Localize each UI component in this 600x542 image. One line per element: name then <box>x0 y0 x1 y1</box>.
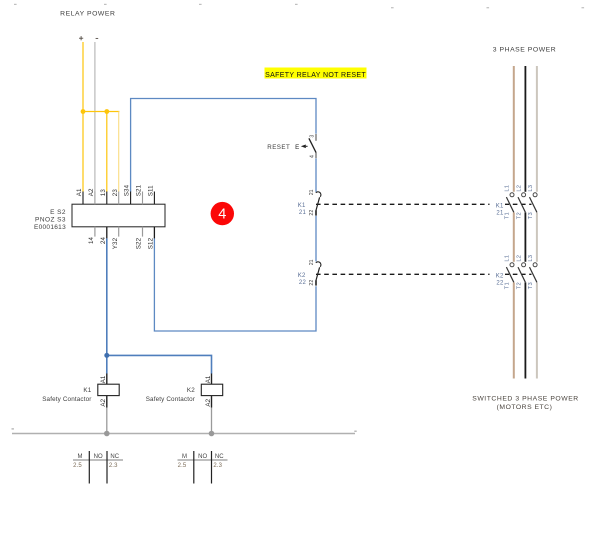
svg-text:24: 24 <box>100 236 107 244</box>
svg-text:SAFETY RELAY NOT RESET: SAFETY RELAY NOT RESET <box>265 72 366 79</box>
svg-text:A1: A1 <box>205 375 212 383</box>
svg-text:PNOZ S3: PNOZ S3 <box>35 217 66 224</box>
svg-text:L3: L3 <box>528 255 534 262</box>
svg-text:21: 21 <box>496 211 504 217</box>
svg-text:A2: A2 <box>100 398 107 406</box>
svg-text:S22: S22 <box>136 237 143 249</box>
svg-text:(MOTORS ETC): (MOTORS ETC) <box>497 404 553 411</box>
svg-text:L2: L2 <box>516 255 522 262</box>
svg-text:22: 22 <box>299 280 307 286</box>
svg-text:E S2: E S2 <box>50 209 66 216</box>
svg-text:T3: T3 <box>528 282 534 289</box>
svg-text:4: 4 <box>309 155 315 158</box>
svg-text:S12: S12 <box>148 237 155 249</box>
svg-text:NO: NO <box>94 454 103 460</box>
svg-text:2.5: 2.5 <box>73 463 82 469</box>
svg-text:M: M <box>182 454 187 460</box>
svg-text:T1: T1 <box>505 212 511 219</box>
svg-text:3: 3 <box>309 135 315 138</box>
svg-text:A1: A1 <box>100 375 107 383</box>
svg-text:SWITCHED 3 PHASE POWER: SWITCHED 3 PHASE POWER <box>472 396 579 403</box>
svg-text:4: 4 <box>218 207 226 223</box>
svg-text:K2: K2 <box>187 387 195 394</box>
svg-text:Safety Contactor: Safety Contactor <box>42 396 91 403</box>
svg-text:NO: NO <box>198 454 207 460</box>
svg-text:RELAY POWER: RELAY POWER <box>60 11 115 18</box>
svg-text:NC: NC <box>110 454 119 460</box>
svg-text:L2: L2 <box>516 185 522 192</box>
svg-text:L1: L1 <box>505 255 511 262</box>
svg-text:A2: A2 <box>88 188 95 196</box>
svg-text:K2: K2 <box>496 274 504 280</box>
svg-text:2.5: 2.5 <box>178 463 187 469</box>
svg-text:23: 23 <box>112 189 119 197</box>
svg-text:L3: L3 <box>528 185 534 192</box>
svg-text:S34: S34 <box>124 184 131 196</box>
svg-text:14: 14 <box>88 236 95 244</box>
svg-text:K1: K1 <box>496 204 504 210</box>
svg-text:K1: K1 <box>83 387 91 394</box>
svg-text:E: E <box>295 144 299 151</box>
svg-text:M: M <box>77 454 82 460</box>
svg-text:A2: A2 <box>205 398 212 406</box>
svg-text:22: 22 <box>309 210 315 216</box>
svg-text:21: 21 <box>309 189 315 195</box>
svg-text:2.3: 2.3 <box>213 463 222 469</box>
svg-text:K1: K1 <box>298 203 306 209</box>
svg-text:22: 22 <box>496 281 504 287</box>
svg-text:22: 22 <box>309 280 315 286</box>
svg-text:T1: T1 <box>505 282 511 289</box>
svg-text:21: 21 <box>299 210 307 216</box>
svg-text:L1: L1 <box>505 185 511 192</box>
svg-text:T3: T3 <box>528 212 534 219</box>
svg-text:13: 13 <box>100 189 107 197</box>
svg-text:NC: NC <box>215 454 224 460</box>
svg-text:3 PHASE POWER: 3 PHASE POWER <box>493 47 556 54</box>
svg-text:K2: K2 <box>298 273 306 279</box>
svg-text:S11: S11 <box>148 185 155 196</box>
svg-text:S21: S21 <box>136 184 143 196</box>
svg-text:A1: A1 <box>76 188 83 196</box>
svg-text:T2: T2 <box>516 212 522 219</box>
svg-text:E0001613: E0001613 <box>34 224 66 231</box>
svg-text:21: 21 <box>309 259 315 265</box>
svg-text:RESET: RESET <box>267 144 290 151</box>
svg-text:2.3: 2.3 <box>109 463 118 469</box>
svg-text:Y32: Y32 <box>112 237 119 249</box>
svg-text:Safety Contactor: Safety Contactor <box>146 396 195 403</box>
svg-text:T2: T2 <box>516 282 522 289</box>
